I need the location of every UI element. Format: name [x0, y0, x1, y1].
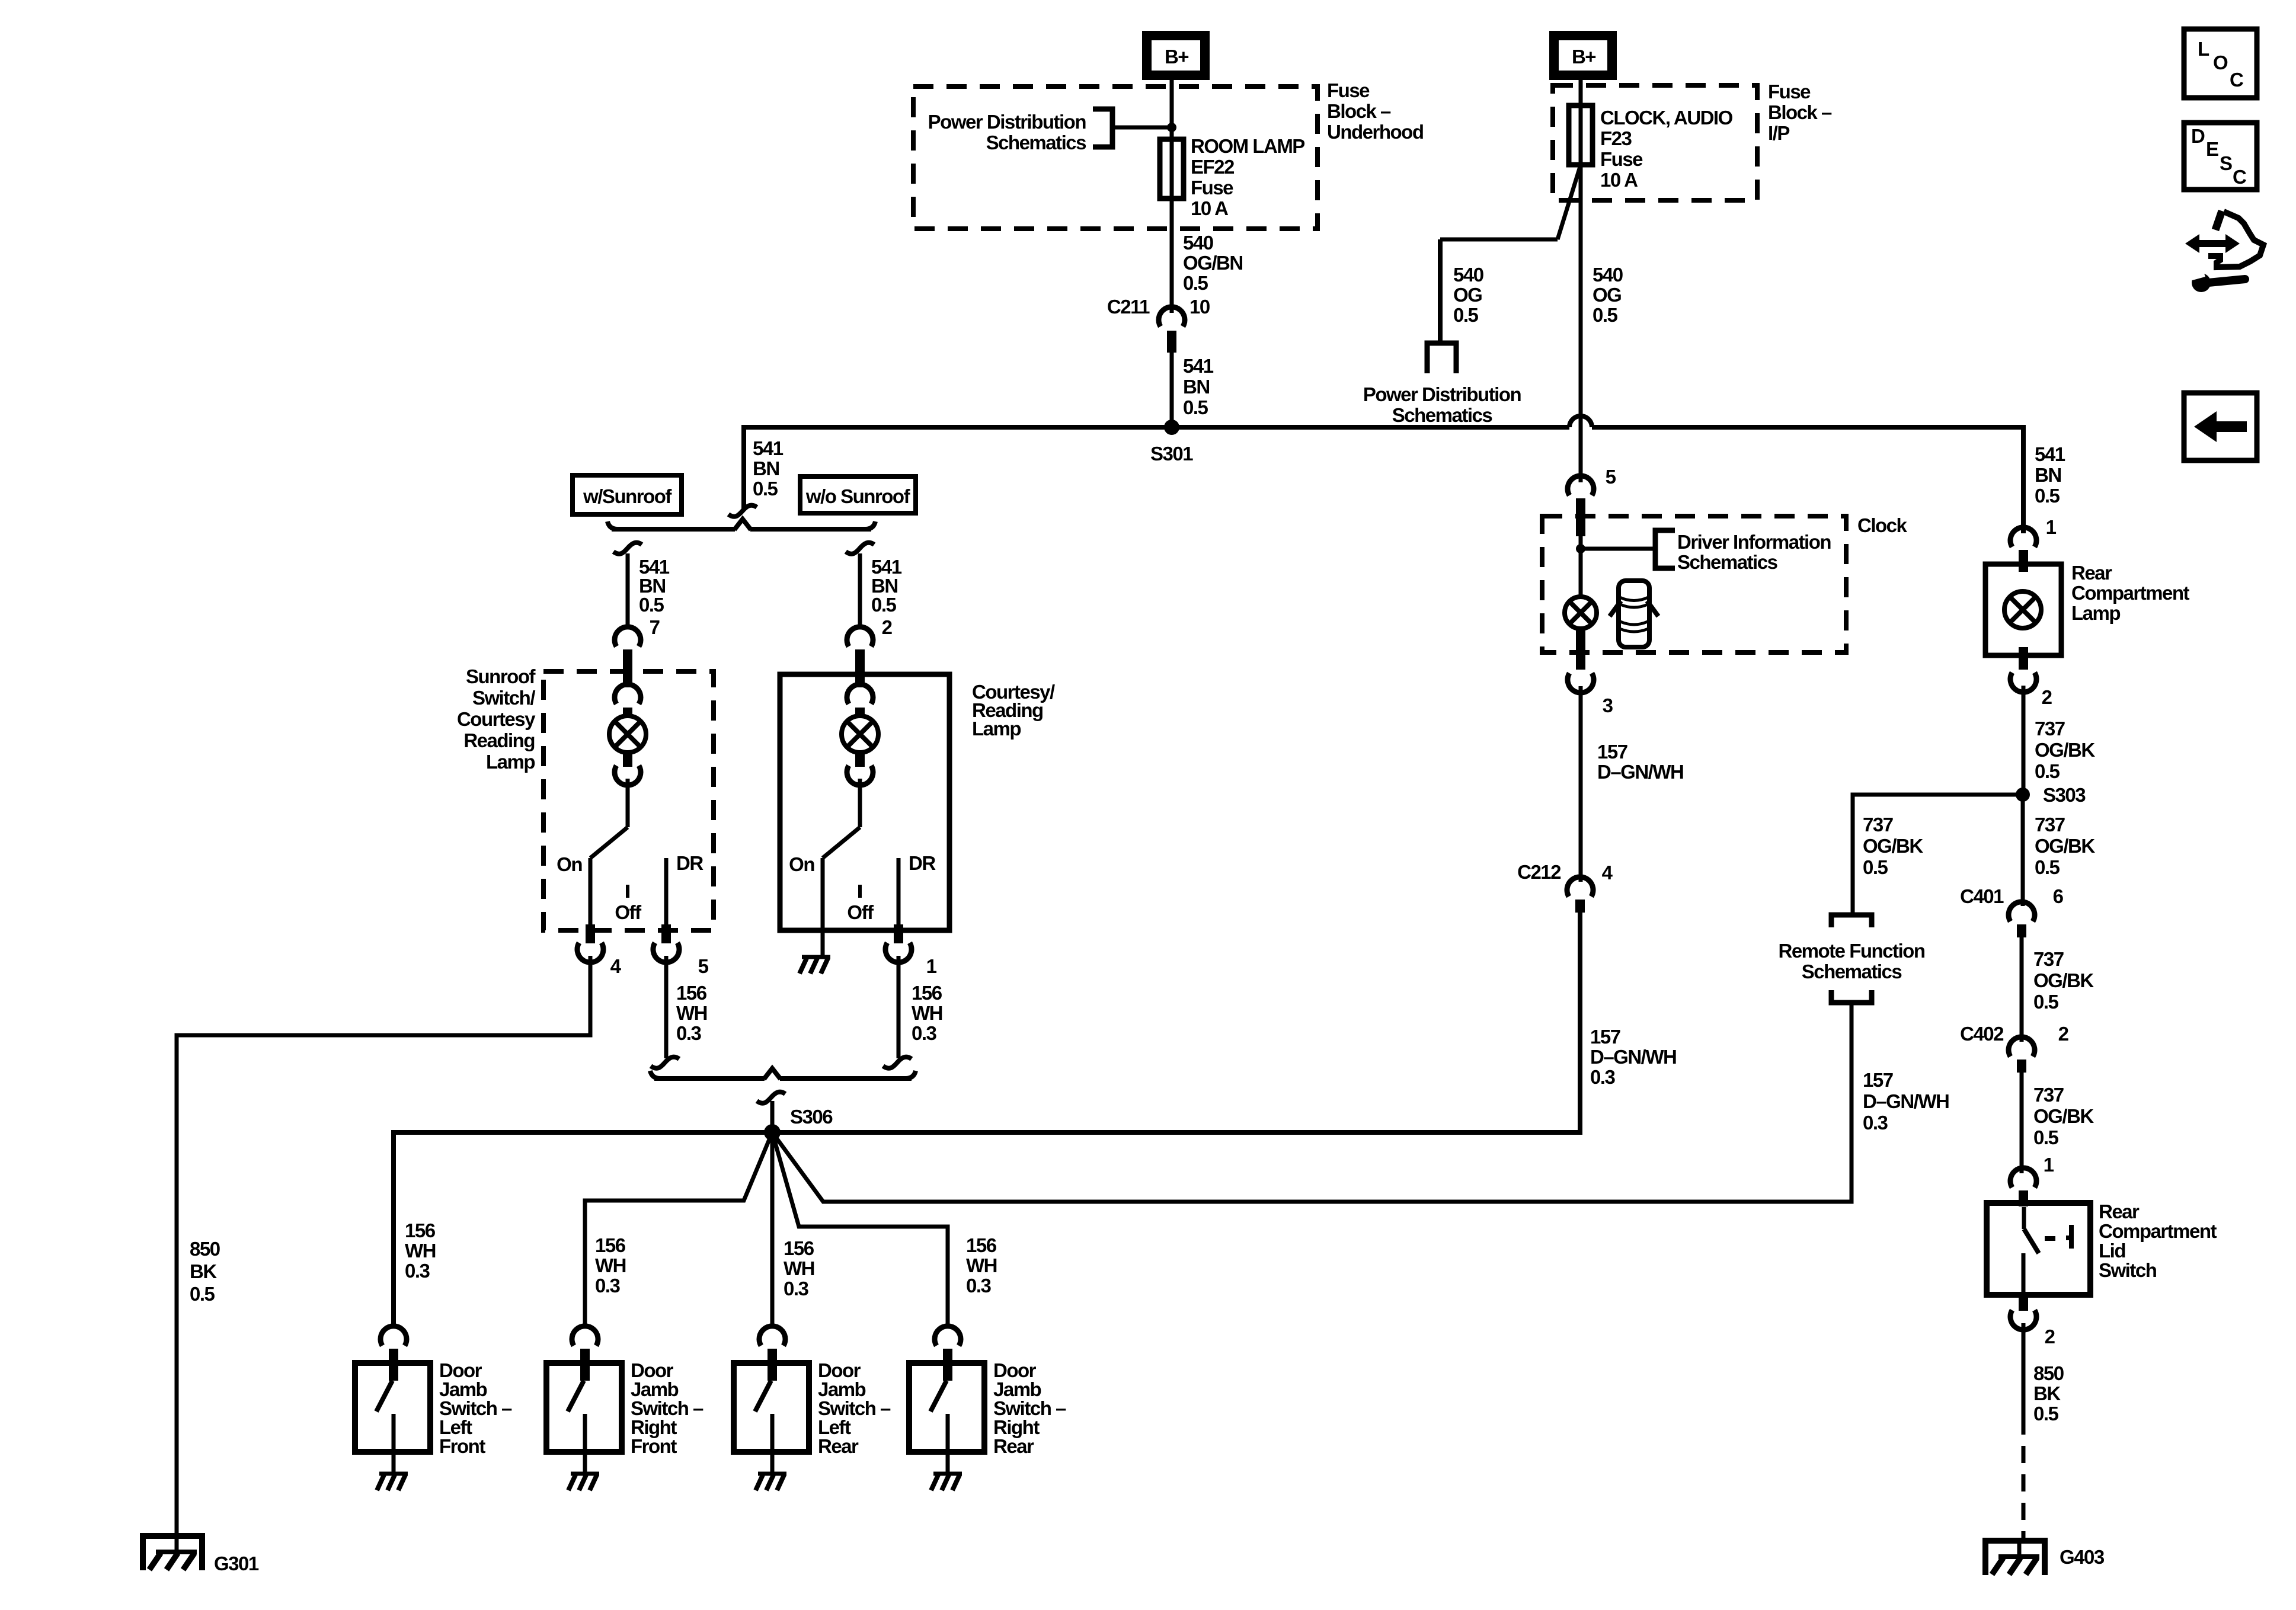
svg-text:OG/BK: OG/BK	[2033, 969, 2094, 991]
svg-text:Lamp: Lamp	[2071, 602, 2120, 624]
svg-text:0.5: 0.5	[871, 594, 897, 616]
svg-text:G403: G403	[2060, 1546, 2105, 1568]
svg-text:DR: DR	[676, 852, 703, 874]
svg-text:C: C	[2230, 69, 2243, 91]
svg-text:C402: C402	[1960, 1023, 2004, 1045]
svg-text:WH: WH	[405, 1240, 436, 1262]
svg-text:BK: BK	[190, 1260, 217, 1282]
svg-text:156: 156	[966, 1234, 997, 1256]
svg-text:Schematics: Schematics	[1677, 551, 1777, 573]
svg-text:0.3: 0.3	[966, 1275, 992, 1297]
svg-text:850: 850	[190, 1238, 220, 1260]
svg-text:Lamp: Lamp	[486, 751, 535, 773]
svg-text:541: 541	[2035, 443, 2065, 465]
svg-text:Fuse: Fuse	[1600, 148, 1643, 170]
svg-text:10 A: 10 A	[1191, 197, 1228, 219]
svg-text:Front: Front	[631, 1435, 677, 1457]
svg-text:737: 737	[2035, 814, 2065, 836]
svg-text:737: 737	[2033, 948, 2064, 970]
svg-text:D–GN/WH: D–GN/WH	[1863, 1090, 1949, 1112]
svg-text:157: 157	[1590, 1026, 1620, 1048]
svg-text:Schematics: Schematics	[986, 132, 1086, 153]
svg-text:156: 156	[676, 982, 707, 1004]
svg-text:Underhood: Underhood	[1327, 121, 1423, 143]
svg-text:Power Distribution: Power Distribution	[1363, 383, 1521, 405]
svg-text:I/P: I/P	[1768, 122, 1789, 144]
svg-text:737: 737	[2033, 1084, 2064, 1106]
svg-text:E: E	[2206, 138, 2218, 160]
svg-text:ROOM LAMP: ROOM LAMP	[1191, 135, 1304, 157]
svg-text:BN: BN	[1183, 376, 1210, 398]
svg-text:B+: B+	[1572, 46, 1595, 68]
svg-text:737: 737	[1863, 814, 1893, 836]
svg-text:540: 540	[1453, 264, 1483, 286]
svg-text:L: L	[2198, 38, 2209, 60]
svg-text:2: 2	[2045, 1326, 2055, 1347]
svg-text:On: On	[789, 853, 814, 875]
svg-text:w/o Sunroof: w/o Sunroof	[805, 485, 911, 507]
svg-text:540: 540	[1183, 232, 1213, 254]
svg-text:Compartment: Compartment	[2071, 582, 2190, 604]
svg-text:0.5: 0.5	[753, 478, 778, 500]
svg-text:WH: WH	[784, 1257, 814, 1279]
svg-text:Off: Off	[615, 901, 642, 923]
svg-text:BN: BN	[753, 457, 779, 479]
svg-text:C: C	[2233, 166, 2246, 188]
svg-text:Rear: Rear	[993, 1435, 1034, 1457]
svg-text:541: 541	[1183, 355, 1214, 377]
svg-text:C401: C401	[1960, 885, 2004, 907]
svg-text:0.5: 0.5	[2035, 856, 2060, 878]
svg-text:0.5: 0.5	[639, 594, 664, 616]
svg-text:Reading: Reading	[463, 729, 535, 751]
svg-text:2: 2	[882, 616, 893, 638]
svg-text:Fuse: Fuse	[1327, 79, 1370, 101]
svg-text:OG/BK: OG/BK	[2035, 835, 2095, 857]
svg-text:0.3: 0.3	[1863, 1112, 1888, 1134]
svg-text:156: 156	[405, 1219, 436, 1241]
svg-text:Sunroof: Sunroof	[466, 665, 536, 687]
svg-text:C212: C212	[1517, 861, 1561, 883]
svg-text:BN: BN	[2035, 464, 2061, 486]
svg-text:2: 2	[2058, 1023, 2069, 1045]
svg-text:5: 5	[1606, 466, 1616, 488]
svg-text:C211: C211	[1107, 296, 1150, 318]
svg-text:156: 156	[595, 1234, 626, 1256]
svg-text:0.5: 0.5	[2035, 485, 2060, 507]
svg-text:Courtesy: Courtesy	[457, 708, 536, 730]
svg-text:0.3: 0.3	[1590, 1066, 1616, 1088]
svg-text:OG: OG	[1453, 284, 1482, 306]
svg-text:OG/BN: OG/BN	[1183, 252, 1243, 274]
svg-text:0.3: 0.3	[405, 1260, 430, 1282]
svg-text:4: 4	[610, 955, 622, 977]
svg-text:Power Distribution: Power Distribution	[928, 111, 1086, 133]
svg-text:Lamp: Lamp	[972, 718, 1021, 740]
svg-text:1: 1	[926, 955, 937, 977]
svg-text:WH: WH	[595, 1254, 626, 1276]
svg-text:G301: G301	[214, 1553, 259, 1574]
svg-text:Block –: Block –	[1327, 100, 1391, 122]
svg-text:0.3: 0.3	[676, 1022, 702, 1044]
svg-text:1: 1	[2044, 1154, 2054, 1176]
svg-text:156: 156	[784, 1237, 814, 1259]
svg-text:0.5: 0.5	[1863, 856, 1888, 878]
svg-text:D: D	[2191, 125, 2205, 147]
svg-text:0.5: 0.5	[1593, 304, 1618, 326]
svg-text:0.5: 0.5	[1453, 304, 1479, 326]
svg-text:4: 4	[1602, 862, 1613, 884]
svg-text:OG/BK: OG/BK	[2033, 1105, 2094, 1127]
svg-text:Rear: Rear	[2099, 1201, 2140, 1222]
svg-text:Driver Information: Driver Information	[1677, 531, 1831, 553]
svg-text:6: 6	[2053, 885, 2064, 907]
svg-text:OG/BK: OG/BK	[2035, 739, 2095, 761]
svg-text:On: On	[557, 853, 582, 875]
svg-text:WH: WH	[676, 1002, 707, 1024]
svg-text:Fuse: Fuse	[1191, 177, 1233, 199]
svg-text:10 A: 10 A	[1600, 169, 1638, 191]
svg-text:Clock: Clock	[1857, 514, 1908, 536]
svg-text:WH: WH	[912, 1002, 942, 1024]
svg-text:Remote Function: Remote Function	[1779, 940, 1925, 962]
svg-text:Fuse: Fuse	[1768, 81, 1811, 103]
svg-text:Block –: Block –	[1768, 101, 1832, 123]
svg-text:0.3: 0.3	[784, 1278, 809, 1299]
svg-text:7: 7	[650, 616, 660, 638]
svg-text:Compartment: Compartment	[2099, 1220, 2217, 1242]
svg-text:D–GN/WH: D–GN/WH	[1597, 761, 1683, 783]
svg-text:Schematics: Schematics	[1802, 961, 1902, 982]
svg-text:F23: F23	[1600, 127, 1632, 149]
svg-text:541: 541	[753, 437, 784, 459]
svg-text:S306: S306	[790, 1106, 833, 1128]
svg-text:OG: OG	[1593, 284, 1621, 306]
svg-text:S303: S303	[2043, 784, 2086, 806]
svg-text:Front: Front	[439, 1435, 485, 1457]
svg-text:737: 737	[2035, 718, 2065, 740]
svg-text:0.5: 0.5	[190, 1283, 215, 1305]
svg-text:BK: BK	[2033, 1382, 2061, 1404]
svg-text:0.3: 0.3	[595, 1275, 621, 1297]
svg-text:EF22: EF22	[1191, 156, 1235, 178]
svg-text:850: 850	[2033, 1362, 2064, 1384]
svg-text:10: 10	[1189, 296, 1210, 318]
svg-text:D–GN/WH: D–GN/WH	[1590, 1046, 1676, 1068]
svg-text:157: 157	[1863, 1069, 1893, 1091]
svg-text:0.5: 0.5	[2033, 991, 2059, 1013]
svg-text:CLOCK, AUDIO: CLOCK, AUDIO	[1600, 107, 1733, 129]
svg-text:B+: B+	[1165, 46, 1188, 68]
svg-text:Rear: Rear	[818, 1435, 859, 1457]
svg-text:5: 5	[698, 955, 709, 977]
svg-text:w/Sunroof: w/Sunroof	[583, 485, 672, 507]
svg-text:0.5: 0.5	[1183, 396, 1208, 418]
svg-text:0.5: 0.5	[1183, 272, 1208, 294]
svg-text:156: 156	[912, 982, 942, 1004]
svg-text:O: O	[2213, 52, 2228, 73]
svg-text:0.5: 0.5	[2035, 760, 2060, 782]
svg-text:2: 2	[2042, 686, 2052, 708]
svg-text:DR: DR	[909, 852, 936, 874]
svg-text:Lid: Lid	[2099, 1240, 2125, 1262]
svg-text:S301: S301	[1150, 443, 1193, 465]
svg-text:Schematics: Schematics	[1392, 404, 1492, 426]
svg-text:0.5: 0.5	[2033, 1126, 2059, 1148]
svg-text:540: 540	[1593, 264, 1623, 286]
svg-text:OG/BK: OG/BK	[1863, 835, 1923, 857]
svg-text:157: 157	[1597, 741, 1627, 763]
svg-text:1: 1	[2046, 516, 2057, 538]
svg-text:Switch: Switch	[2099, 1259, 2157, 1281]
svg-text:3: 3	[1603, 694, 1613, 716]
svg-text:Switch/: Switch/	[472, 687, 535, 709]
svg-text:0.3: 0.3	[912, 1022, 937, 1044]
svg-text:0.5: 0.5	[2033, 1403, 2059, 1425]
svg-text:Off: Off	[847, 901, 874, 923]
svg-text:S: S	[2220, 152, 2232, 174]
svg-text:Rear: Rear	[2071, 562, 2112, 584]
svg-text:WH: WH	[966, 1254, 997, 1276]
